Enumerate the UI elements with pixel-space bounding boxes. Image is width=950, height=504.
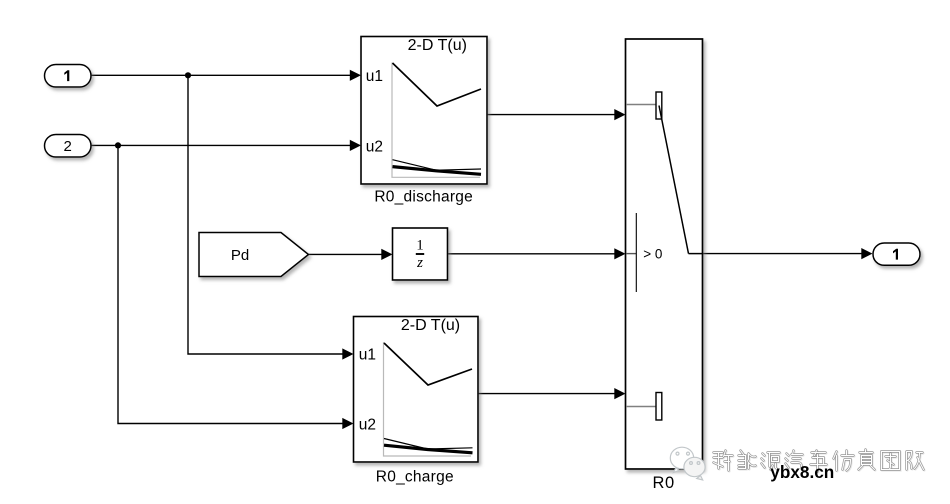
switch lower port slot (656, 393, 662, 421)
switch upper port slot (656, 92, 662, 119)
R0_charge graph thin lower curve (384, 439, 473, 450)
switch upper port line (626, 104, 656, 106)
input port In1 (45, 65, 92, 88)
svg-text:R0: R0 (652, 474, 674, 492)
R0_charge graph axes (384, 342, 472, 456)
junction node on wire In2 (115, 142, 121, 148)
R0_charge graph upper curve (384, 343, 472, 385)
wire R0_charge to switch input 3 (478, 388, 626, 399)
From tag Pd (199, 233, 309, 277)
label R0_charge (376, 469, 454, 486)
svg-text:> 0: > 0 (643, 246, 662, 261)
svg-text:2-D T(u): 2-D T(u) (408, 37, 467, 54)
R0_charge graph thick lower curve (384, 445, 473, 453)
output port Out1 (873, 243, 920, 265)
svg-text:ybx8.cn: ybx8.cn (770, 462, 834, 482)
2-D lookup table block R0_discharge (361, 37, 487, 185)
svg-text:1: 1 (416, 238, 424, 254)
switch threshold line (635, 213, 637, 292)
unit delay block 1/z (393, 228, 448, 280)
svg-text:2: 2 (64, 138, 72, 155)
svg-text:R0_charge: R0_charge (376, 469, 454, 486)
switch output segment (689, 253, 703, 255)
R0_discharge graph thick lower curve (393, 167, 482, 175)
switch criteria label (643, 246, 662, 261)
svg-text:z: z (416, 255, 423, 271)
R0_discharge graph axes (392, 63, 480, 178)
wire unit delay to switch control (448, 248, 626, 259)
svg-text:u1: u1 (366, 68, 383, 85)
input port In2 (45, 135, 92, 158)
svg-text:u1: u1 (359, 347, 376, 364)
2-D lookup table block R0_charge (354, 317, 479, 463)
switch block R0 (626, 39, 703, 469)
wire Pd to unit delay (309, 249, 393, 260)
junction node on wire In1 (185, 72, 191, 78)
wire In1 to R0_discharge u1 (91, 70, 361, 81)
R0_discharge graph upper curve (393, 63, 482, 106)
wire R0_discharge to switch input 1 (487, 109, 626, 120)
label R0 (652, 474, 674, 492)
svg-text:R0_discharge: R0_discharge (374, 189, 473, 206)
watermark url ybx8.cn (770, 462, 834, 482)
switch control stub (626, 253, 636, 255)
switch selector diagonal (659, 106, 689, 254)
svg-text:2-D T(u): 2-D T(u) (401, 317, 460, 334)
svg-text:u2: u2 (366, 139, 383, 156)
wire junction1 down to R0_charge u1 (188, 75, 354, 359)
switch lower port line (626, 406, 656, 408)
svg-text:u2: u2 (359, 417, 376, 434)
label R0_discharge (374, 189, 473, 206)
wire switch to Out1 (703, 248, 873, 259)
wire junction2 down to R0_charge u2 (118, 145, 354, 429)
wire In2 to R0_discharge u2 (91, 140, 361, 151)
R0_discharge graph thin lower curve (393, 160, 482, 171)
svg-text:Pd: Pd (231, 247, 249, 264)
watermark wechat logo (670, 447, 705, 480)
